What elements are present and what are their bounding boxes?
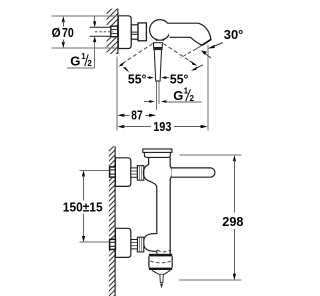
dimension 150±15: extension lines (80, 170, 110, 242)
dimension Ø70: arrows (62, 16, 65, 48)
pipe centerline (dashed) (95, 31, 113, 33)
small arc arrow left (123, 67, 130, 73)
top union nut (137, 166, 143, 181)
svg-text:2: 2 (87, 59, 92, 68)
bottom union nut (137, 237, 143, 252)
svg-text:G: G (173, 88, 183, 103)
dimension Ø70: extension lines (52, 16, 118, 48)
lever ring dark band (153, 48, 162, 51)
lever hub (top view) (154, 43, 163, 48)
svg-text:30°: 30° (224, 28, 244, 42)
dimension 193 (117, 125, 207, 128)
diverter top band (149, 254, 172, 257)
union nut (top view) (138, 23, 146, 41)
55-deg dashed lever position left (124, 44, 153, 63)
water drop (160, 284, 163, 289)
wall hatching (top view) (107, 0, 119, 64)
text G 1/2 left (70, 52, 92, 69)
dimension 298: extension lines (179, 155, 242, 280)
extension line from wall face (for 87/193) (116, 57, 118, 131)
top union neck (131, 168, 138, 177)
S-union neck (top view) (131, 25, 138, 39)
svg-text:298: 298 (222, 214, 243, 229)
svg-text:150±15: 150±15 (63, 201, 103, 215)
faucet body (front view) (143, 157, 172, 254)
30-deg arc arrow left (201, 50, 211, 57)
bottom escutcheon flange (front view) (115, 228, 130, 257)
svg-text:G: G (70, 54, 80, 69)
wall hatching (front view) (108, 139, 116, 296)
bottom union neck (131, 240, 138, 249)
svg-text:Ø: Ø (52, 26, 61, 40)
pipe thread nut in wall (top view) (111, 26, 118, 37)
lever shaft (top view, pointing toward viewer) (154, 50, 161, 81)
svg-text:55°: 55° (128, 72, 146, 86)
small arc arrow right (191, 65, 203, 71)
30-deg arc arrow right (tip on extension line) (208, 43, 223, 49)
55-deg dashed lever position right (163, 44, 189, 61)
top pipe stub in wall (110, 167, 116, 177)
cap neck (front view) (144, 152, 170, 157)
lever extension lines (156, 82, 158, 111)
lever handle (front view) (172, 168, 215, 177)
dimension 298: line and arrows (233, 155, 236, 280)
svg-text:1: 1 (184, 87, 189, 96)
body circle (lever cap from above) (150, 20, 171, 41)
circle tick marks (156, 39, 164, 41)
diverter bottom band (149, 268, 172, 270)
top cap (front view) (143, 149, 172, 152)
dimension 150±15: line and arrows (82, 170, 85, 242)
spout (top view) (168, 23, 212, 45)
supply pipe (top view) (90, 27, 111, 36)
bottom pipe stub in wall (110, 239, 116, 249)
svg-text:1: 1 (81, 52, 86, 61)
bottom union ball (144, 234, 157, 252)
spout face extension line (dash-dot) (181, 45, 203, 58)
svg-text:193: 193 (153, 120, 171, 134)
svg-text:70: 70 (62, 26, 74, 40)
svg-text:87: 87 (131, 108, 142, 122)
svg-text:55°: 55° (170, 72, 189, 86)
arrow on left dashed line (118, 62, 124, 66)
G 1/2 middle: arrows and shelf (144, 100, 202, 103)
diverter housing (149, 256, 172, 267)
escutcheon flange (top view) (118, 16, 131, 49)
text G 1/2 middle (173, 87, 194, 104)
spout tip face (202, 40, 211, 46)
arrow on right dashed line (190, 61, 198, 66)
lever width arrows (upper pair) (147, 76, 169, 79)
outlet cone (152, 270, 171, 274)
top escutcheon flange (front view) (115, 158, 130, 187)
hidden edge dashed arc (tube into diverter) (157, 250, 169, 252)
G 1/2 left: leader and arrows (67, 16, 96, 68)
aerator stem (160, 275, 163, 283)
wall face line (top view) (117, 9, 119, 54)
dimension 87 (117, 114, 156, 117)
extension line from spout tip (for 193) (207, 45, 209, 131)
wall face line (front view) (114, 146, 116, 296)
svg-text:2: 2 (190, 94, 195, 103)
